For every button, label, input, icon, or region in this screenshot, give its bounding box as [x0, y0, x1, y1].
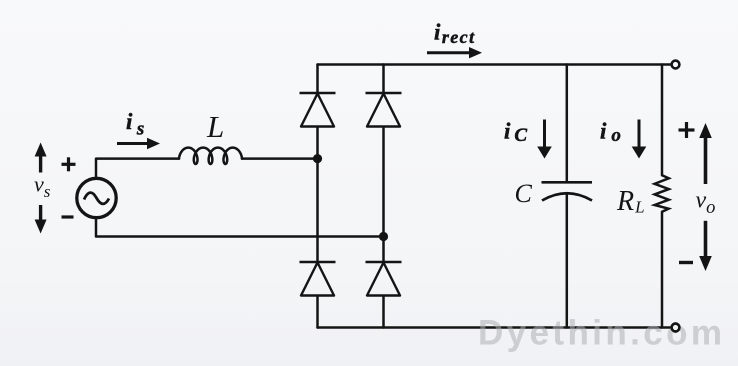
node A junction dot	[313, 154, 322, 163]
svg-text:C: C	[515, 179, 533, 208]
minus sign at output	[679, 261, 693, 264]
wire capacitor branch lower	[566, 195, 569, 328]
arrow i_rect	[427, 47, 482, 58]
arrow i_o	[632, 120, 647, 159]
AC source V1	[77, 178, 116, 217]
wire left bridge branch upper	[316, 65, 319, 94]
wire left bridge branch lower	[316, 296, 319, 328]
wire bottom rail	[318, 326, 672, 329]
minus sign at source	[62, 215, 74, 218]
plus sign at source	[62, 157, 76, 171]
resistor RL zigzag	[655, 175, 669, 212]
wire right bridge branch lower	[382, 296, 385, 328]
diode D4 (right bottom)	[366, 262, 402, 296]
wire top rail	[318, 63, 672, 66]
diode D3 (left bottom)	[300, 262, 336, 296]
terminal bottom right	[672, 324, 680, 332]
wire resistor branch lower	[661, 212, 664, 328]
wire right bridge branch upper	[382, 65, 385, 94]
wire capacitor branch upper	[566, 65, 569, 183]
wire source bottom to bridge node B	[96, 218, 384, 237]
inductor L1 coil	[179, 148, 242, 164]
arrow v_o down	[699, 221, 712, 271]
terminal top right	[672, 61, 680, 69]
diode D2 (right top)	[366, 93, 402, 127]
wire inductor to bridge node A	[242, 157, 318, 160]
wire left bridge branch middle	[316, 127, 319, 262]
arrow i_s	[117, 138, 160, 149]
capacitor C1 plates	[542, 182, 593, 200]
arrow v_s up	[35, 143, 47, 173]
arrow v_o up	[699, 123, 712, 184]
node B junction dot	[379, 232, 388, 241]
svg-text:L: L	[206, 109, 224, 144]
terminal bottom right redraw	[672, 324, 680, 332]
wire resistor branch upper	[661, 65, 664, 176]
wire right bridge branch middle	[382, 127, 385, 262]
wire source top to inductor	[96, 159, 179, 178]
arrow i_C	[537, 120, 552, 159]
svg-text:Dyethin.com: Dyethin.com	[478, 314, 725, 353]
plus sign at output	[679, 122, 695, 138]
arrow v_s down	[35, 205, 47, 234]
diode D1 (left top)	[300, 93, 336, 127]
